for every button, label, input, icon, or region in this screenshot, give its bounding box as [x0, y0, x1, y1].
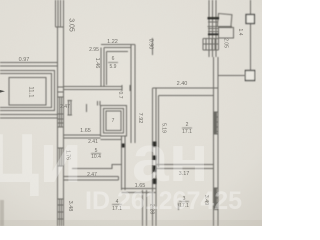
WC room inner wall line [106, 111, 121, 131]
dimension and room labels [19, 18, 243, 214]
room5 bottom double wall y 176-180 [64, 177, 119, 181]
loggia entry arrow [0, 90, 5, 93]
tick room3 bottom [178, 203, 180, 210]
WC room outer wall [101, 106, 127, 137]
facade wall below loggia y 114-118 [0, 115, 58, 119]
corridor jamb dark mark [122, 144, 125, 148]
window on right wall y 112-134 [214, 112, 219, 134]
entrance door rect 1 [217, 14, 232, 28]
window W1 top-left (x 55-64, y 0-27) [56, 0, 64, 27]
long wall x 131-135 (y 44-143) [131, 45, 135, 144]
room 8 inner lines [107, 52, 129, 86]
room 8 top wall [101, 45, 135, 48]
entrance black bar [208, 17, 220, 19]
WC room middle wall line [104, 109, 124, 134]
room 2 left wall inner x 158 [158, 96, 160, 168]
thick dark marks [123, 18, 219, 184]
paper background [0, 0, 262, 226]
left outer wall (vertical, x 57-64) [58, 27, 64, 226]
loggia inner rectangle [9, 78, 46, 106]
corridor bottom wall y 188-193 [122, 189, 157, 193]
svg-text:ан: ан [132, 121, 209, 195]
column square 1 [246, 15, 255, 24]
entrance horizontal lines [203, 27, 232, 39]
window W3 on left wall (y 148-166) [58, 148, 64, 166]
junction rungs on left wall y 87-92 [58, 87, 64, 92]
corridor left wall x 121-125 (y 134-190) [101, 136, 126, 190]
bathroom block top wall y 86-90 (x 57-122) [64, 85, 131, 91]
entrance rungs [208, 22, 218, 32]
balcony edge line y 75-76 [218, 75, 245, 77]
wall y 135-138 (x 63-100) [64, 135, 101, 138]
entrance black bar 2 [208, 33, 219, 35]
dimension line 0.90 [152, 38, 154, 55]
corridor-room3 door jambs [153, 166, 157, 185]
wardrobe line y 168 with jog [72, 165, 122, 169]
column square 2 [245, 71, 255, 81]
window on right wall y 188-208 [214, 188, 219, 208]
entrance hatch block [203, 39, 219, 51]
stub wall x 68-71 y 100-115 [68, 101, 73, 116]
room 8 left wall [101, 48, 104, 88]
right outer wall x 213-218 (y 57-226) [214, 57, 219, 226]
door leaf mark x 86 y 104-112 [86, 104, 88, 112]
WC door jambs [98, 101, 101, 106]
bottom edge shade [0, 220, 262, 226]
room2 door jambs on left wall [153, 142, 157, 161]
window sill mark y 209 on right wall [214, 209, 219, 211]
column line x 250 [250, 0, 252, 71]
window W4 on left wall (y 199-226) [58, 199, 64, 226]
squares (columns) on right [245, 15, 255, 81]
wall 3.17 y 164-169 [156, 165, 214, 169]
entrance block verticals y 0-57 [209, 0, 216, 57]
room 2 top wall y 88-96 [153, 88, 219, 96]
svg-text:Ци: Ци [0, 119, 82, 197]
svg-text:ID 261267425: ID 261267425 [85, 187, 242, 215]
fraction bars for room labels [91, 63, 192, 205]
room 4 right wall x 142-146 [143, 190, 147, 226]
scan grain noise [0, 0, 262, 226]
top-left horizontal wall y 62-66 [0, 63, 58, 67]
scan shadow bottom-left edge [0, 200, 4, 226]
window W2 on left wall (y 97-127) [58, 97, 64, 127]
loggia outer rectangle [0, 71, 55, 111]
long wall x 152-156 (y 88-226) [153, 88, 157, 226]
entrance door rect 2 [219, 28, 234, 39]
